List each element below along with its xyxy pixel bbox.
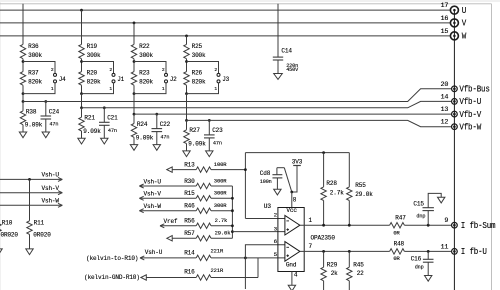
svg-text:7: 7 (309, 243, 313, 250)
resistor R45 (347, 251, 365, 290)
pin number 7 (309, 243, 313, 250)
svg-text:C16: C16 (411, 255, 422, 262)
junction R15 out (231, 197, 234, 200)
svg-text:R19: R19 (87, 43, 98, 50)
svg-text:100R: 100R (214, 161, 227, 168)
pin number 2 (274, 212, 278, 219)
svg-text:U: U (462, 6, 467, 16)
junction R37 bottom node (22, 92, 25, 95)
terminal pin 20 Vfb-Bus (440, 81, 489, 95)
wire U3 pin 6 (245, 245, 285, 289)
svg-text:Vsh-U: Vsh-U (144, 178, 162, 185)
svg-text:9.09k: 9.09k (136, 134, 154, 141)
svg-text:(kelvin-to-R10): (kelvin-to-R10) (86, 255, 138, 262)
junction R20 bottom node (80, 92, 83, 95)
svg-text:R16: R16 (184, 269, 195, 276)
capacitor C15 (413, 193, 441, 225)
resistor R55 (347, 153, 374, 226)
svg-text:0R: 0R (393, 229, 400, 236)
svg-text:300k: 300k (139, 52, 153, 59)
svg-text:820k: 820k (139, 78, 153, 85)
junction R25 bottom node (185, 60, 188, 63)
svg-text:J1: J1 (117, 76, 124, 83)
pin number 3 (274, 225, 278, 232)
junction R23 bottom node (133, 92, 136, 95)
svg-text:R29: R29 (327, 262, 338, 269)
frame left edge (0, 0, 2, 290)
wire R23 bottom (133, 85, 135, 93)
svg-text:300k: 300k (28, 52, 42, 59)
wire net Vsh-W (left) (0, 197, 62, 207)
ground R24 (130, 145, 137, 151)
ground C15 (438, 197, 445, 203)
resistor R57 (167, 230, 233, 241)
svg-text:300k: 300k (87, 52, 101, 59)
junction R24 top (133, 113, 136, 116)
junction R55 bottom (348, 224, 351, 227)
svg-text:2: 2 (162, 67, 165, 73)
wire R19-R20 (81, 59, 83, 72)
resistor R26 (184, 70, 206, 86)
junction C16 top (427, 250, 430, 253)
svg-text:2: 2 (109, 67, 112, 73)
ground Cd8 (274, 189, 281, 195)
resistor R29 (321, 251, 338, 290)
svg-text:1: 1 (109, 86, 112, 92)
wire net V (bus line) (0, 22, 450, 24)
wire net Vsh-U (left) (0, 172, 62, 182)
svg-text:100n: 100n (260, 179, 272, 185)
junction R28 top (322, 151, 325, 154)
svg-text:820k: 820k (87, 78, 101, 85)
svg-text:R55: R55 (355, 182, 366, 189)
svg-text:dnp: dnp (415, 264, 424, 270)
resistor R48 (390, 240, 452, 262)
wire U3A output (300, 224, 390, 226)
jumper J2 (134, 62, 177, 94)
resistor R56 (160, 217, 232, 228)
resistor R15 (139, 190, 232, 201)
svg-text:dnp: dnp (416, 214, 425, 220)
capacitor C23 (204, 120, 223, 150)
svg-text:300R: 300R (214, 190, 227, 197)
svg-text:Vfb-W: Vfb-W (459, 122, 481, 133)
svg-text:R26: R26 (192, 70, 203, 77)
svg-text:9: 9 (444, 217, 448, 225)
wire 3V3 rail drop (244, 153, 246, 219)
svg-text:R56: R56 (184, 218, 195, 225)
resistor R20 (79, 70, 101, 86)
terminal pin 17 U (440, 2, 466, 16)
svg-text:R20: R20 (87, 70, 98, 77)
svg-text:Cd8: Cd8 (260, 170, 271, 177)
wire col R22 to line (133, 94, 135, 115)
svg-text:R11: R11 (34, 219, 45, 226)
terminal pin 13 Vfb-V (440, 106, 481, 120)
junction R38 top (22, 100, 25, 103)
resistor R13 (167, 161, 246, 172)
svg-text:C24: C24 (49, 108, 60, 115)
svg-text:W: W (462, 32, 467, 42)
svg-text:2: 2 (51, 67, 54, 73)
wire R25-R26 (186, 59, 188, 72)
svg-text:Vsh-U: Vsh-U (42, 172, 60, 179)
junction R27 top (185, 119, 188, 122)
resistor R46 (139, 202, 232, 213)
resistor R38 (20, 102, 42, 133)
svg-text:R46: R46 (184, 203, 195, 210)
terminal pin 11 I fb-U (440, 243, 487, 257)
wire R37 bottom (22, 85, 24, 93)
svg-text:29.0k: 29.0k (215, 230, 232, 237)
svg-text:0R020: 0R020 (1, 231, 19, 238)
svg-text:C15: C15 (413, 201, 424, 208)
svg-text:1: 1 (309, 217, 313, 224)
wire U3 pin 8 (292, 192, 297, 208)
resistor R27 (184, 120, 206, 150)
svg-text:20: 20 (440, 81, 448, 89)
svg-text:9.09k: 9.09k (25, 122, 43, 129)
svg-text:C14: C14 (281, 48, 292, 55)
svg-text:R45: R45 (353, 262, 364, 269)
wire Cd8 diagonal (284, 168, 292, 192)
wire col R19 to line (81, 94, 83, 108)
junction col R22 top (133, 22, 136, 25)
svg-text:Vsh-U: Vsh-U (145, 249, 163, 256)
resistor R25 (184, 43, 206, 59)
junction pin6 drop on R14 row (244, 257, 247, 260)
wire net W (bus line) (0, 35, 450, 37)
capacitor C16 (411, 251, 434, 275)
svg-text:29.0k: 29.0k (355, 191, 373, 198)
svg-text:R48: R48 (394, 240, 405, 247)
svg-text:Vfb-V: Vfb-V (459, 109, 481, 120)
svg-text:C21: C21 (107, 115, 118, 122)
junction R28 bottom (322, 224, 325, 227)
svg-text:450V: 450V (286, 67, 299, 73)
terminal pin 14 Vfb-U (440, 93, 481, 107)
junction C21 top (103, 106, 106, 109)
wire net U (bus line) (0, 9, 450, 11)
resistor R22 (131, 43, 153, 59)
resistor R28 (321, 153, 344, 226)
frame right border (491, 4, 493, 290)
svg-text:R23: R23 (139, 70, 150, 77)
svg-text:0R020: 0R020 (33, 231, 51, 238)
junction C22 top (155, 113, 158, 116)
wire col R25 drop (186, 36, 188, 45)
svg-text:22: 22 (357, 270, 364, 277)
junction R29 top (322, 250, 325, 253)
svg-text:R10: R10 (2, 219, 13, 226)
wire U3B output (300, 250, 390, 252)
svg-text:1: 1 (162, 86, 165, 92)
svg-text:2.7k: 2.7k (215, 217, 228, 224)
resistor R16 (84, 267, 258, 281)
svg-text:R13: R13 (184, 161, 195, 168)
svg-text:13: 13 (440, 106, 448, 114)
wire col R25 to line (186, 94, 188, 121)
jumper J4 (23, 62, 66, 94)
svg-text:47n: 47n (49, 122, 58, 128)
resistor R19 (79, 43, 101, 59)
wire U3 pin 3 (232, 231, 285, 233)
junction R19 bottom node (80, 60, 83, 63)
svg-text:J2: J2 (170, 76, 177, 83)
svg-text:C23: C23 (212, 127, 223, 134)
svg-text:R38: R38 (26, 108, 37, 115)
junction R13 out (244, 168, 247, 171)
svg-text:OPA2350: OPA2350 (311, 235, 336, 242)
capacitor C14 (273, 4, 299, 74)
wire col R19 drop (81, 10, 83, 44)
pin number 5 (274, 251, 278, 258)
junction R26 bottom node (185, 92, 188, 95)
resistor R14 (86, 247, 285, 261)
wire R26 bottom (186, 85, 188, 93)
junction pin3 branch (231, 230, 234, 233)
svg-text:3V3: 3V3 (292, 158, 303, 165)
wire R22-R23 (133, 59, 135, 72)
capacitor C21 (99, 108, 118, 139)
svg-text:R21: R21 (84, 115, 95, 122)
svg-text:R25: R25 (192, 43, 203, 50)
svg-text:2.7k: 2.7k (330, 190, 344, 197)
resistor R37 (20, 70, 42, 86)
svg-text:4: 4 (294, 272, 298, 279)
wire col R36 drop (22, 4, 24, 45)
wire connector bus vertical (453, 10, 455, 290)
svg-text:R57: R57 (184, 230, 195, 237)
svg-text:47n: 47n (213, 141, 222, 147)
svg-text:15: 15 (440, 28, 448, 36)
wire net 3V3 rail (245, 152, 349, 154)
svg-text:8: 8 (293, 197, 297, 204)
ground C14 (274, 74, 283, 80)
svg-text:R24: R24 (137, 121, 148, 128)
wire net Vfb-Bus (23, 89, 451, 102)
wire summing bus (231, 186, 233, 238)
wire R16 riser (257, 258, 259, 278)
pin number 6 (274, 238, 278, 245)
svg-text:300k: 300k (192, 52, 206, 59)
svg-text:47n: 47n (108, 128, 117, 134)
wire col R36 to line (22, 94, 24, 102)
svg-text:Vsh-V: Vsh-V (42, 185, 60, 192)
terminal pin 16 V (440, 15, 466, 29)
capacitor C22 (152, 114, 171, 145)
junction R56 out (231, 224, 234, 227)
wire net Vfb-V (134, 113, 451, 115)
svg-text:J3: J3 (222, 76, 229, 83)
wire col R22 drop (133, 23, 135, 45)
ground R10 (cropped) (0, 249, 2, 255)
ground C16 (425, 276, 432, 282)
ground R27 (183, 151, 190, 157)
junction R21 top (80, 106, 83, 109)
svg-text:R22: R22 (139, 43, 150, 50)
wire R20 bottom (81, 85, 83, 93)
svg-text:16: 16 (440, 15, 448, 23)
svg-text:11: 11 (440, 243, 448, 251)
junction R11 top (28, 178, 31, 181)
svg-text:820k: 820k (28, 78, 42, 85)
svg-text:U3: U3 (264, 203, 272, 210)
svg-text:2k: 2k (331, 270, 338, 277)
terminal pin 9 I fb-Sum (444, 217, 495, 231)
resistor R30 (139, 177, 232, 188)
capacitor C24 (41, 102, 60, 133)
svg-text:J4: J4 (59, 76, 66, 83)
resistor R47 (390, 214, 452, 236)
junction R36 bottom node (22, 60, 25, 63)
jumper J1 (82, 62, 125, 94)
svg-text:221R: 221R (211, 247, 224, 254)
resistor R36 (20, 43, 42, 59)
svg-text:9.09k: 9.09k (83, 128, 101, 135)
svg-text:1: 1 (51, 86, 54, 92)
jumper J3 (187, 62, 230, 94)
junction col R25 top (185, 34, 188, 37)
svg-text:Vfb-U: Vfb-U (459, 97, 481, 108)
svg-text:R27: R27 (189, 127, 200, 134)
op-amp U3A triangle (285, 215, 300, 235)
wire U3 pin 2 (245, 218, 285, 220)
supply 3V3 (292, 158, 303, 192)
resistor R11 (27, 179, 51, 249)
svg-text:Vsh-W: Vsh-W (144, 203, 162, 210)
wire R36-R37 (22, 59, 24, 72)
wire net Vsh-V (left) (0, 185, 62, 195)
svg-text:Vref: Vref (164, 218, 178, 225)
ground C23 (206, 151, 213, 157)
frame top border (0, 3, 492, 5)
op-amp U3 body (264, 203, 336, 272)
ground C21 (101, 138, 108, 144)
ground C24 (42, 132, 49, 138)
wire U3 pin 4 (292, 272, 298, 286)
ground R11 (26, 249, 33, 255)
junction R22 bottom node (133, 60, 136, 63)
svg-text:R15: R15 (184, 190, 195, 197)
svg-text:2: 2 (214, 67, 217, 73)
resistor R21 (79, 108, 101, 139)
svg-text:Gnd: Gnd (286, 261, 297, 268)
junction C24 top (44, 100, 47, 103)
terminal pin 15 W (440, 28, 466, 42)
svg-text:300R: 300R (214, 177, 227, 184)
resistor R24 (131, 114, 153, 145)
wire net Vfb-W (187, 120, 452, 126)
svg-text:0R: 0R (393, 255, 400, 262)
ground U3 pin 4 (288, 285, 295, 290)
junction R45 top (348, 250, 351, 253)
svg-text:Vsh-V: Vsh-V (144, 191, 162, 198)
svg-text:12: 12 (440, 119, 448, 127)
svg-text:14: 14 (440, 93, 448, 101)
resistor R23 (131, 70, 153, 86)
wire net Vfb-U (82, 101, 452, 107)
junction C15 bottom (427, 224, 430, 227)
ground C22 (153, 145, 160, 151)
junction R46 out (231, 209, 234, 212)
svg-text:820k: 820k (192, 78, 206, 85)
svg-text:221R: 221R (211, 267, 224, 274)
svg-text:I fb-Sum: I fb-Sum (461, 220, 496, 231)
svg-text:1: 1 (214, 86, 217, 92)
svg-text:300R: 300R (214, 202, 227, 209)
resistor R10 (cropped at edge) (0, 179, 18, 249)
junction col R19 top (80, 9, 83, 12)
capacitor Cd8 (260, 168, 285, 190)
frame top edge (0, 0, 500, 2)
pin number 1 (309, 217, 313, 224)
op-amp U3B triangle (285, 242, 300, 262)
svg-text:I fb-U: I fb-U (461, 247, 487, 258)
junction U3 pin 8 node (290, 191, 293, 194)
svg-text:Vcc: Vcc (286, 207, 297, 214)
svg-text:(kelvin-GND-R10): (kelvin-GND-R10) (84, 274, 140, 281)
svg-text:Vfb-Bus: Vfb-Bus (459, 84, 490, 95)
svg-text:R30: R30 (184, 178, 195, 185)
svg-text:R37: R37 (28, 70, 39, 77)
svg-text:R36: R36 (28, 43, 39, 50)
svg-text:17: 17 (440, 2, 448, 10)
svg-text:Vsh-W: Vsh-W (42, 197, 60, 204)
ground R21 (78, 138, 85, 144)
svg-text:R47: R47 (395, 214, 406, 221)
svg-text:47n: 47n (160, 134, 169, 140)
svg-text:V: V (462, 19, 467, 29)
junction C23 top (208, 119, 211, 122)
svg-text:9.09k: 9.09k (188, 141, 206, 148)
svg-text:C22: C22 (160, 121, 171, 128)
terminal pin 12 Vfb-W (440, 119, 481, 133)
svg-text:R28: R28 (326, 180, 337, 187)
svg-text:R14: R14 (184, 250, 195, 257)
ground R38 (19, 132, 26, 138)
